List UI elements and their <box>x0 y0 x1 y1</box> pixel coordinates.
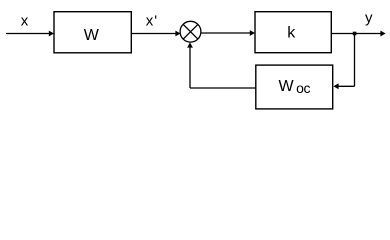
svg-text:W: W <box>279 78 295 95</box>
svg-text:k: k <box>287 25 296 42</box>
svg-text:oc: oc <box>296 80 310 96</box>
block k <box>255 12 331 53</box>
multiplier X mark <box>183 24 198 39</box>
wire W to multiplier <box>131 33 176 35</box>
block W1 <box>54 12 131 53</box>
svg-text:': ' <box>154 13 157 30</box>
svg-text:W: W <box>84 27 100 44</box>
wire feedback tap down <box>354 34 356 87</box>
junction dot on output <box>353 32 357 36</box>
wire multiplier to k <box>201 32 251 34</box>
block Woc <box>256 65 333 109</box>
wire feedback into Woc <box>338 85 355 87</box>
wire k to output <box>331 33 381 35</box>
multiplier junction circle <box>180 21 201 42</box>
wire feedback up to multiplier <box>189 46 191 88</box>
wire Woc output left <box>190 87 256 89</box>
svg-text:y: y <box>365 10 373 27</box>
svg-text:x: x <box>21 13 29 30</box>
svg-text:x: x <box>146 13 154 30</box>
wire input arrow to W <box>6 33 50 35</box>
